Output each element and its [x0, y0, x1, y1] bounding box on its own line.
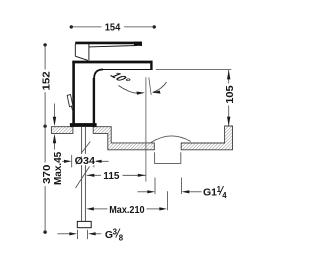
Max.45 upper arrow — [54, 104, 56, 119]
base plate — [70, 123, 97, 127]
spout right end edge — [150, 61, 152, 70]
drain dome cover — [150, 136, 190, 143]
supply nut G3/8 — [77, 221, 91, 227]
lever blade underside — [89, 46, 137, 47]
svg-text:8: 8 — [119, 234, 124, 243]
countertop / basin step section right of faucet — [93, 127, 154, 150]
svg-text:Max.45: Max.45 — [52, 152, 64, 185]
10 degree tilted line — [149, 77, 151, 95]
label 152 — [39, 70, 52, 93]
countertop left section — [51, 127, 73, 134]
lever neck left edge — [74, 44, 76, 56]
spout underside — [103, 69, 153, 71]
dimension G1 1/4 — [154, 178, 156, 195]
pipe break slash upper — [81, 142, 90, 154]
svg-text:Max.210: Max.210 — [109, 204, 145, 216]
dimension 105 — [156, 68, 232, 70]
dimension O34 — [71, 155, 73, 167]
label 370 — [40, 163, 52, 187]
svg-text:152: 152 — [41, 71, 53, 90]
pipe break slash lower — [76, 167, 90, 189]
dimension 154 — [70, 25, 73, 28]
svg-text:1: 1 — [217, 185, 222, 194]
svg-text:G1: G1 — [203, 187, 217, 199]
faucet body left edge — [72, 61, 75, 124]
10 degree right arc with arrowhead — [153, 82, 167, 92]
lever neck diagonal — [75, 56, 88, 60]
lever top bar — [75, 42, 142, 45]
10 degree left arc with arrowhead — [119, 86, 144, 94]
svg-text:Ø34: Ø34 — [75, 155, 96, 167]
svg-text:105: 105 — [224, 85, 236, 104]
10 degree plumb line — [145, 77, 147, 181]
svg-text:154: 154 — [105, 22, 121, 34]
drain tailpiece bracket — [155, 152, 181, 163]
spout underside fillet into body right edge — [94, 70, 103, 79]
svg-text:115: 115 — [103, 170, 119, 182]
Max.45 lower arrow — [54, 142, 56, 150]
countertop right L-section — [181, 126, 232, 150]
dimension 115 — [87, 174, 101, 176]
spout top edge — [72, 61, 152, 64]
lever neck right edge — [88, 44, 90, 60]
svg-text:4: 4 — [222, 191, 227, 200]
supply pipe — [81, 127, 83, 221]
dimension G3/8 — [57, 233, 70, 235]
dimension Max.210 — [86, 207, 94, 210]
flag marker on body — [67, 94, 73, 106]
dimension 152 / 370 line — [43, 43, 46, 46]
